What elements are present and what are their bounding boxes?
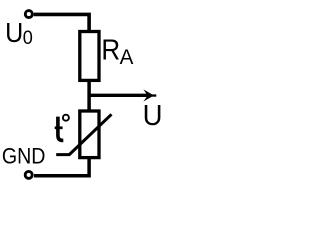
svg-text:R: R [101, 33, 120, 65]
svg-text:0: 0 [23, 28, 33, 50]
label U0 [5, 17, 33, 49]
thermistor RT body [80, 111, 99, 158]
wire from thermistor bottom to GND terminal [34, 158, 89, 176]
wire from resistor RA bottom to thermistor top [87, 80, 91, 110]
svg-text:A: A [120, 45, 135, 69]
label RA [101, 33, 134, 69]
svg-text:U: U [5, 17, 23, 48]
label t of t-degree (drawn glyph: tall stem, low crossbar, foot curl) [55, 117, 64, 141]
resistor RA [80, 32, 99, 81]
degree mark of t-degree [63, 115, 69, 121]
node output arrow U [89, 89, 156, 101]
svg-text:U: U [143, 98, 163, 131]
svg-text:GND: GND [2, 145, 46, 169]
thermistor diagonal stroke with foot [56, 114, 111, 154]
terminal GND (bottom) [25, 171, 32, 178]
wire from U0 terminal to resistor RA top [34, 14, 89, 31]
terminal U0 (top input terminal) [25, 11, 32, 18]
